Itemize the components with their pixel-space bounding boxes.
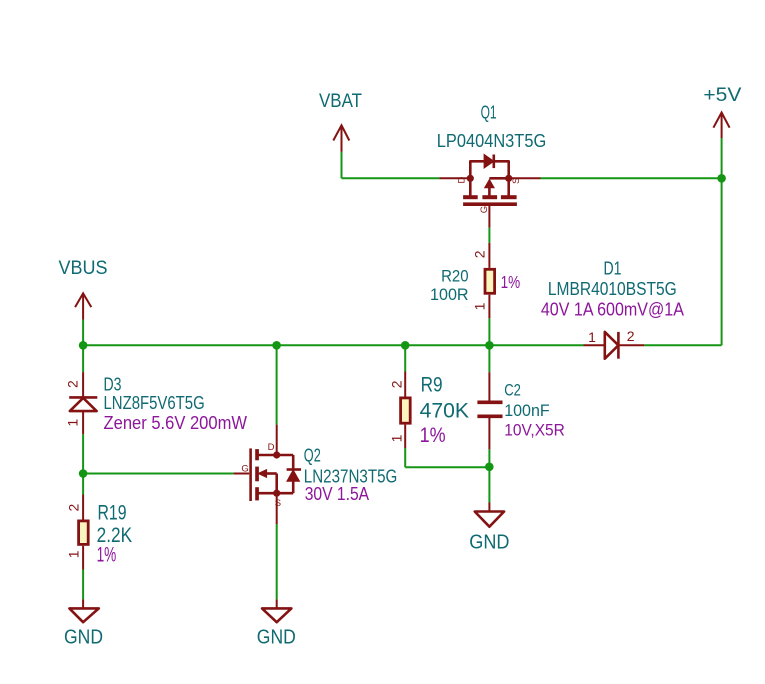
junction left node — [79, 469, 88, 478]
wire left node down to R19 — [82, 474, 84, 495]
wire left node to Q2 gate — [83, 473, 234, 475]
svg-text:2: 2 — [65, 380, 81, 388]
wire C2 top — [488, 345, 490, 372]
svg-text:C2: C2 — [504, 382, 521, 400]
wire VBAT vertical — [341, 152, 343, 178]
power symbol VBUS — [59, 257, 108, 319]
svg-text:1: 1 — [472, 302, 488, 310]
svg-text:30V 1.5A: 30V 1.5A — [305, 484, 369, 504]
ground GND under C2 — [469, 503, 509, 554]
wire VBUS vertical — [82, 320, 84, 346]
wire R9 top — [404, 345, 406, 371]
svg-text:10V,X5R: 10V,X5R — [504, 421, 565, 439]
svg-text:G: G — [241, 464, 248, 475]
svg-text:1: 1 — [588, 329, 596, 345]
wire R19 to GND — [82, 570, 84, 600]
svg-text:Q1: Q1 — [481, 103, 497, 123]
svg-text:2: 2 — [472, 250, 488, 258]
wire R20 to bus — [488, 318, 490, 345]
svg-text:1: 1 — [66, 550, 82, 558]
wire Q1 gate to R20 — [488, 228, 490, 243]
svg-text:1%: 1% — [420, 424, 446, 447]
svg-text:1%: 1% — [97, 544, 117, 567]
svg-text:1: 1 — [65, 419, 81, 427]
pin Q2 source — [276, 493, 278, 524]
wire main bus — [83, 344, 583, 346]
power symbol VBAT — [319, 90, 362, 152]
resistor R19 — [66, 495, 133, 570]
svg-text:2: 2 — [388, 380, 404, 388]
svg-text:D: D — [456, 176, 467, 183]
capacitor C2 — [477, 372, 565, 449]
svg-text:Zener 5.6V 200mW: Zener 5.6V 200mW — [104, 413, 248, 433]
junction VBUS-bus — [79, 341, 88, 350]
svg-text:Q2: Q2 — [304, 446, 321, 466]
svg-text:GND: GND — [469, 531, 509, 553]
svg-text:R19: R19 — [98, 502, 127, 525]
junction R20-C2-bus — [485, 341, 494, 350]
svg-text:470K: 470K — [420, 400, 469, 423]
resistor R9 — [388, 372, 469, 449]
transistor Q2 — [234, 442, 398, 509]
svg-text:R20: R20 — [441, 268, 469, 286]
wire C2 bottom to GND — [488, 449, 490, 502]
svg-text:1: 1 — [388, 434, 404, 442]
svg-text:2: 2 — [627, 328, 635, 344]
wire bus right segment D1 to +5V — [644, 344, 721, 346]
svg-text:D1: D1 — [604, 258, 622, 278]
svg-text:LNZ8F5V6T5G: LNZ8F5V6T5G — [104, 393, 205, 413]
svg-text:S: S — [511, 178, 522, 184]
resistor R20 — [430, 243, 520, 319]
wire Q2 source to GND — [276, 524, 278, 599]
svg-text:LP0404N3T5G: LP0404N3T5G — [437, 131, 546, 151]
svg-text:GND: GND — [257, 625, 296, 648]
svg-text:R9: R9 — [421, 373, 443, 396]
junction Q2 drain-bus — [272, 341, 281, 350]
wire R9 bottom horizontal — [405, 466, 489, 468]
svg-text:VBAT: VBAT — [319, 90, 362, 112]
wire +5V vertical — [721, 138, 723, 178]
wire VBUS node down to D3 — [82, 345, 84, 372]
svg-text:D3: D3 — [104, 375, 122, 395]
wire D3 to left node — [82, 434, 84, 473]
power symbol +5V — [703, 84, 741, 138]
svg-text:LMBR4010BST5G: LMBR4010BST5G — [548, 279, 677, 299]
wire +5V node down to bus — [721, 178, 723, 345]
wire R9 bottom vertical — [404, 448, 406, 467]
svg-text:100nF: 100nF — [504, 402, 550, 420]
diode D1 — [541, 258, 684, 358]
svg-text:D: D — [268, 442, 275, 453]
svg-text:G: G — [479, 206, 490, 213]
wire Q2 drain to bus — [276, 345, 278, 424]
svg-text:40V 1A 600mV@1A: 40V 1A 600mV@1A — [541, 299, 684, 319]
svg-text:GND: GND — [64, 625, 103, 648]
pin Q2 drain — [276, 425, 278, 455]
wire Q1 source to +5V node — [541, 177, 722, 179]
svg-text:100R: 100R — [430, 286, 469, 304]
zener diode D3 — [65, 372, 247, 434]
junction +5V node — [717, 174, 726, 183]
wire VBAT to Q1 drain — [342, 177, 440, 179]
ground GND left — [64, 599, 103, 648]
svg-text:2: 2 — [66, 503, 82, 511]
ground GND middle — [257, 599, 296, 648]
svg-text:1%: 1% — [501, 272, 521, 292]
junction R9-bus — [401, 341, 410, 350]
junction C2-R9 node — [485, 463, 494, 472]
transistor Q1 — [437, 103, 546, 228]
svg-text:+5V: +5V — [703, 84, 741, 106]
svg-text:VBUS: VBUS — [59, 257, 108, 279]
